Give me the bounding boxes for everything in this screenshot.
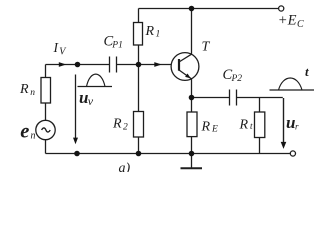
svg-text:E: E bbox=[211, 125, 218, 135]
svg-text:r: r bbox=[295, 122, 299, 132]
svg-text:T: T bbox=[202, 40, 211, 55]
svg-text:n: n bbox=[30, 88, 35, 98]
svg-text:R: R bbox=[201, 120, 211, 135]
svg-text:P1: P1 bbox=[111, 40, 123, 50]
svg-text:+E: +E bbox=[278, 13, 297, 29]
svg-text:n: n bbox=[31, 131, 36, 142]
svg-text:R: R bbox=[112, 117, 122, 132]
svg-text:R: R bbox=[145, 24, 155, 39]
svg-text:a): a) bbox=[119, 161, 131, 172]
svg-text:v: v bbox=[88, 94, 94, 108]
svg-text:R: R bbox=[239, 118, 249, 133]
svg-text:e: e bbox=[20, 121, 29, 143]
svg-text:P2: P2 bbox=[231, 74, 243, 84]
svg-text:R: R bbox=[19, 82, 29, 97]
svg-text:C: C bbox=[297, 19, 304, 30]
svg-text:2: 2 bbox=[123, 123, 128, 133]
svg-text:t: t bbox=[305, 64, 309, 79]
svg-text:1: 1 bbox=[156, 29, 161, 39]
